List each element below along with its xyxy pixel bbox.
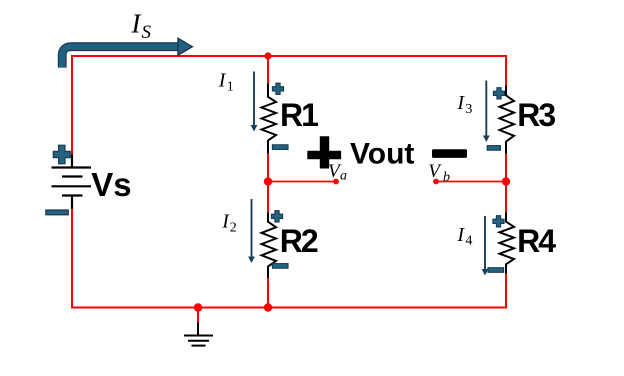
current arrow I2	[248, 199, 255, 263]
wire left vertical upper (to battery +)	[71, 55, 73, 155]
R4 minus	[488, 268, 504, 273]
ground	[184, 323, 213, 346]
svg-text:4: 4	[465, 234, 472, 249]
battery minus sign	[46, 210, 69, 215]
wire right branch R4 to bottom	[505, 273, 507, 309]
R2 minus	[272, 264, 288, 269]
source current arrow Is	[62, 47, 178, 68]
svg-text:S: S	[142, 22, 152, 43]
resistor R3	[500, 86, 515, 154]
wire right branch top (corner to R3)	[505, 55, 507, 86]
svg-text:3: 3	[465, 102, 472, 117]
node top middle	[264, 52, 271, 59]
svg-text:Vs: Vs	[91, 166, 131, 203]
svg-text:R1: R1	[280, 97, 318, 133]
wire middle branch top (node to R1)	[267, 56, 269, 84]
svg-text:V: V	[428, 161, 442, 182]
svg-text:I: I	[218, 69, 227, 91]
svg-text:R4: R4	[517, 223, 556, 259]
svg-text:I: I	[456, 92, 465, 114]
battery Vs symbol	[52, 155, 92, 210]
svg-text:I: I	[456, 224, 465, 246]
wire left vertical lower (battery - to bottom)	[71, 209, 73, 308]
R1 minus	[272, 145, 288, 150]
svg-text:1: 1	[227, 80, 234, 95]
resistor R2	[262, 213, 277, 279]
battery plus sign	[53, 145, 70, 164]
current arrow I1	[251, 72, 258, 132]
R1 plus	[272, 83, 283, 94]
Is arrowhead	[178, 38, 193, 55]
wire ground stub (red part)	[197, 308, 199, 323]
wire bottom horizontal	[71, 307, 506, 309]
current arrow I3	[483, 81, 490, 143]
wire top horizontal	[72, 55, 506, 57]
svg-text:b: b	[443, 170, 450, 185]
wire middle branch R1 to R2 (through node Va)	[267, 153, 269, 213]
current arrow I4	[482, 216, 489, 276]
R3 minus	[487, 146, 500, 151]
resistor R1	[262, 84, 277, 154]
resistor R4	[500, 213, 515, 274]
node Va wire end dot	[333, 179, 339, 185]
wire node Vb stub	[436, 181, 506, 183]
node Vb wire end dot	[433, 179, 439, 185]
wire node Va stub	[268, 181, 336, 183]
svg-text:2: 2	[230, 220, 237, 235]
node bottom middle (R2 branch)	[264, 303, 272, 311]
Vout minus sign	[432, 149, 467, 158]
Vout plus sign	[307, 136, 341, 168]
R2 plus	[271, 211, 282, 222]
node Vb	[502, 177, 510, 185]
R3 plus	[493, 88, 504, 99]
wire middle branch R2 to bottom	[267, 278, 269, 308]
svg-text:a: a	[340, 169, 347, 184]
R4 plus	[493, 216, 504, 227]
svg-text:R3: R3	[517, 97, 555, 133]
node ground junction	[194, 303, 202, 311]
wire right branch R3 to R4 (through node Vb)	[505, 153, 507, 213]
svg-text:R2: R2	[280, 223, 318, 259]
node Va	[264, 177, 272, 185]
svg-text:Vout: Vout	[350, 137, 414, 170]
